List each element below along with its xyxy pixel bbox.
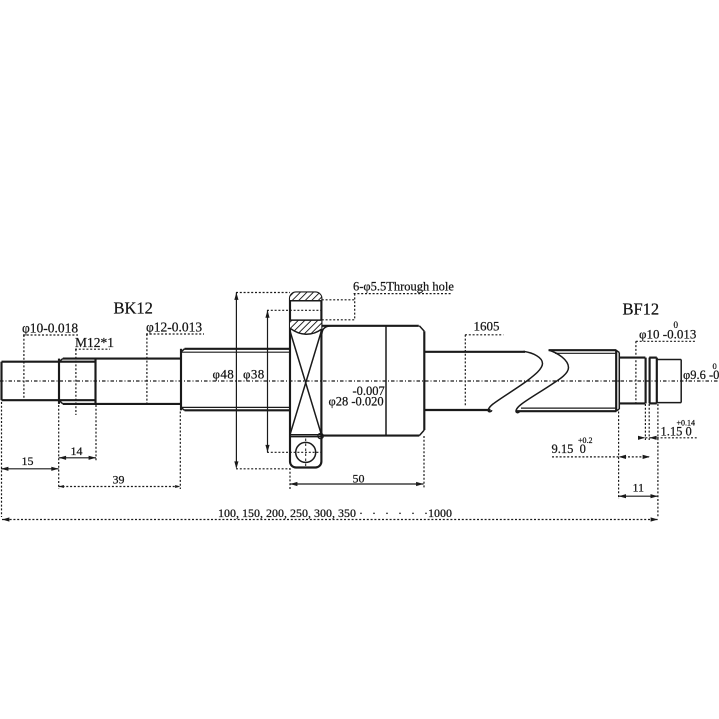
svg-text:100, 150, 200, 250, 300, 350 ·: 100, 150, 200, 250, 300, 350 · · · · · ·… <box>218 506 452 520</box>
bolt hole vertical centerline <box>305 439 307 468</box>
centerline main axis <box>0 380 719 382</box>
circlip groove <box>646 358 650 404</box>
ball nut body <box>318 326 424 439</box>
dimension phi38 <box>243 310 321 452</box>
bolt hole circle front view <box>296 442 316 462</box>
svg-text:+0.14: +0.14 <box>677 419 696 428</box>
shaft left pilot journal phi10 <box>2 362 96 401</box>
svg-text:50: 50 <box>353 472 365 486</box>
label BF12 <box>623 300 660 319</box>
svg-text:6-φ5.5Through hole: 6-φ5.5Through hole <box>353 280 454 294</box>
flange section cross box <box>290 331 321 435</box>
dimension 14 <box>59 405 96 489</box>
nut flange outline <box>290 293 321 468</box>
ball screw section left of nut <box>181 349 290 411</box>
svg-text:φ28 -0.020: φ28 -0.020 <box>329 395 384 409</box>
svg-text:φ10 -0.013: φ10 -0.013 <box>639 327 696 342</box>
leader phi10-0.018 <box>22 321 78 401</box>
journal land after groove <box>649 358 657 404</box>
ball screw after break to shoulder <box>516 350 616 411</box>
svg-text:BF12: BF12 <box>623 300 660 319</box>
leader phi10-0.013 right <box>636 320 696 404</box>
svg-text:15: 15 <box>22 454 34 468</box>
svg-text:14: 14 <box>71 444 83 458</box>
svg-text:1605: 1605 <box>474 319 500 334</box>
flange hatched band below bolt hole with boss arc <box>290 320 321 334</box>
dimension 11 journal length <box>619 404 658 517</box>
label BK12 <box>114 299 153 318</box>
leader M12x1 <box>75 335 114 415</box>
flange hatched band above bolt hole <box>290 293 321 301</box>
dimension 1.15 groove width <box>638 404 697 440</box>
label phi9.6 tolerance <box>683 361 719 382</box>
ball screw between nut and break <box>424 352 525 410</box>
svg-text:φ12-0.013: φ12-0.013 <box>146 320 202 335</box>
thread section M12x1 <box>59 359 96 404</box>
dimension 50 <box>290 436 424 489</box>
svg-text:0: 0 <box>713 361 717 371</box>
svg-text:M12*1: M12*1 <box>75 335 114 350</box>
screw shoulder at right end <box>616 350 619 411</box>
leader phi12-0.013 <box>146 320 204 404</box>
label phi28 tolerance <box>329 384 385 409</box>
leader 1605 <box>465 319 503 407</box>
end tip phi9.6 <box>657 360 681 403</box>
nut body divider line <box>385 326 387 436</box>
svg-text:+0.2: +0.2 <box>578 436 593 445</box>
svg-text:φ10-0.018: φ10-0.018 <box>22 321 78 336</box>
svg-text:39: 39 <box>113 473 125 487</box>
right journal phi10 <box>620 358 646 404</box>
dimension 39 <box>59 412 181 490</box>
dimension phi48 <box>213 293 291 469</box>
svg-text:0: 0 <box>674 320 679 330</box>
overall length dimension <box>2 506 658 522</box>
svg-text:φ38: φ38 <box>243 367 265 382</box>
leader 6-phi5.5 through hole <box>322 280 455 320</box>
dimension 9.15 groove position <box>552 436 651 459</box>
flange bottom lug plate <box>290 436 321 438</box>
svg-text:φ48: φ48 <box>213 367 235 382</box>
break line left <box>488 351 542 411</box>
svg-text:BK12: BK12 <box>114 299 153 318</box>
journal phi12 section <box>96 359 182 404</box>
break line right <box>516 350 569 413</box>
dimension 15 <box>1 402 59 517</box>
svg-text:11: 11 <box>633 481 645 495</box>
